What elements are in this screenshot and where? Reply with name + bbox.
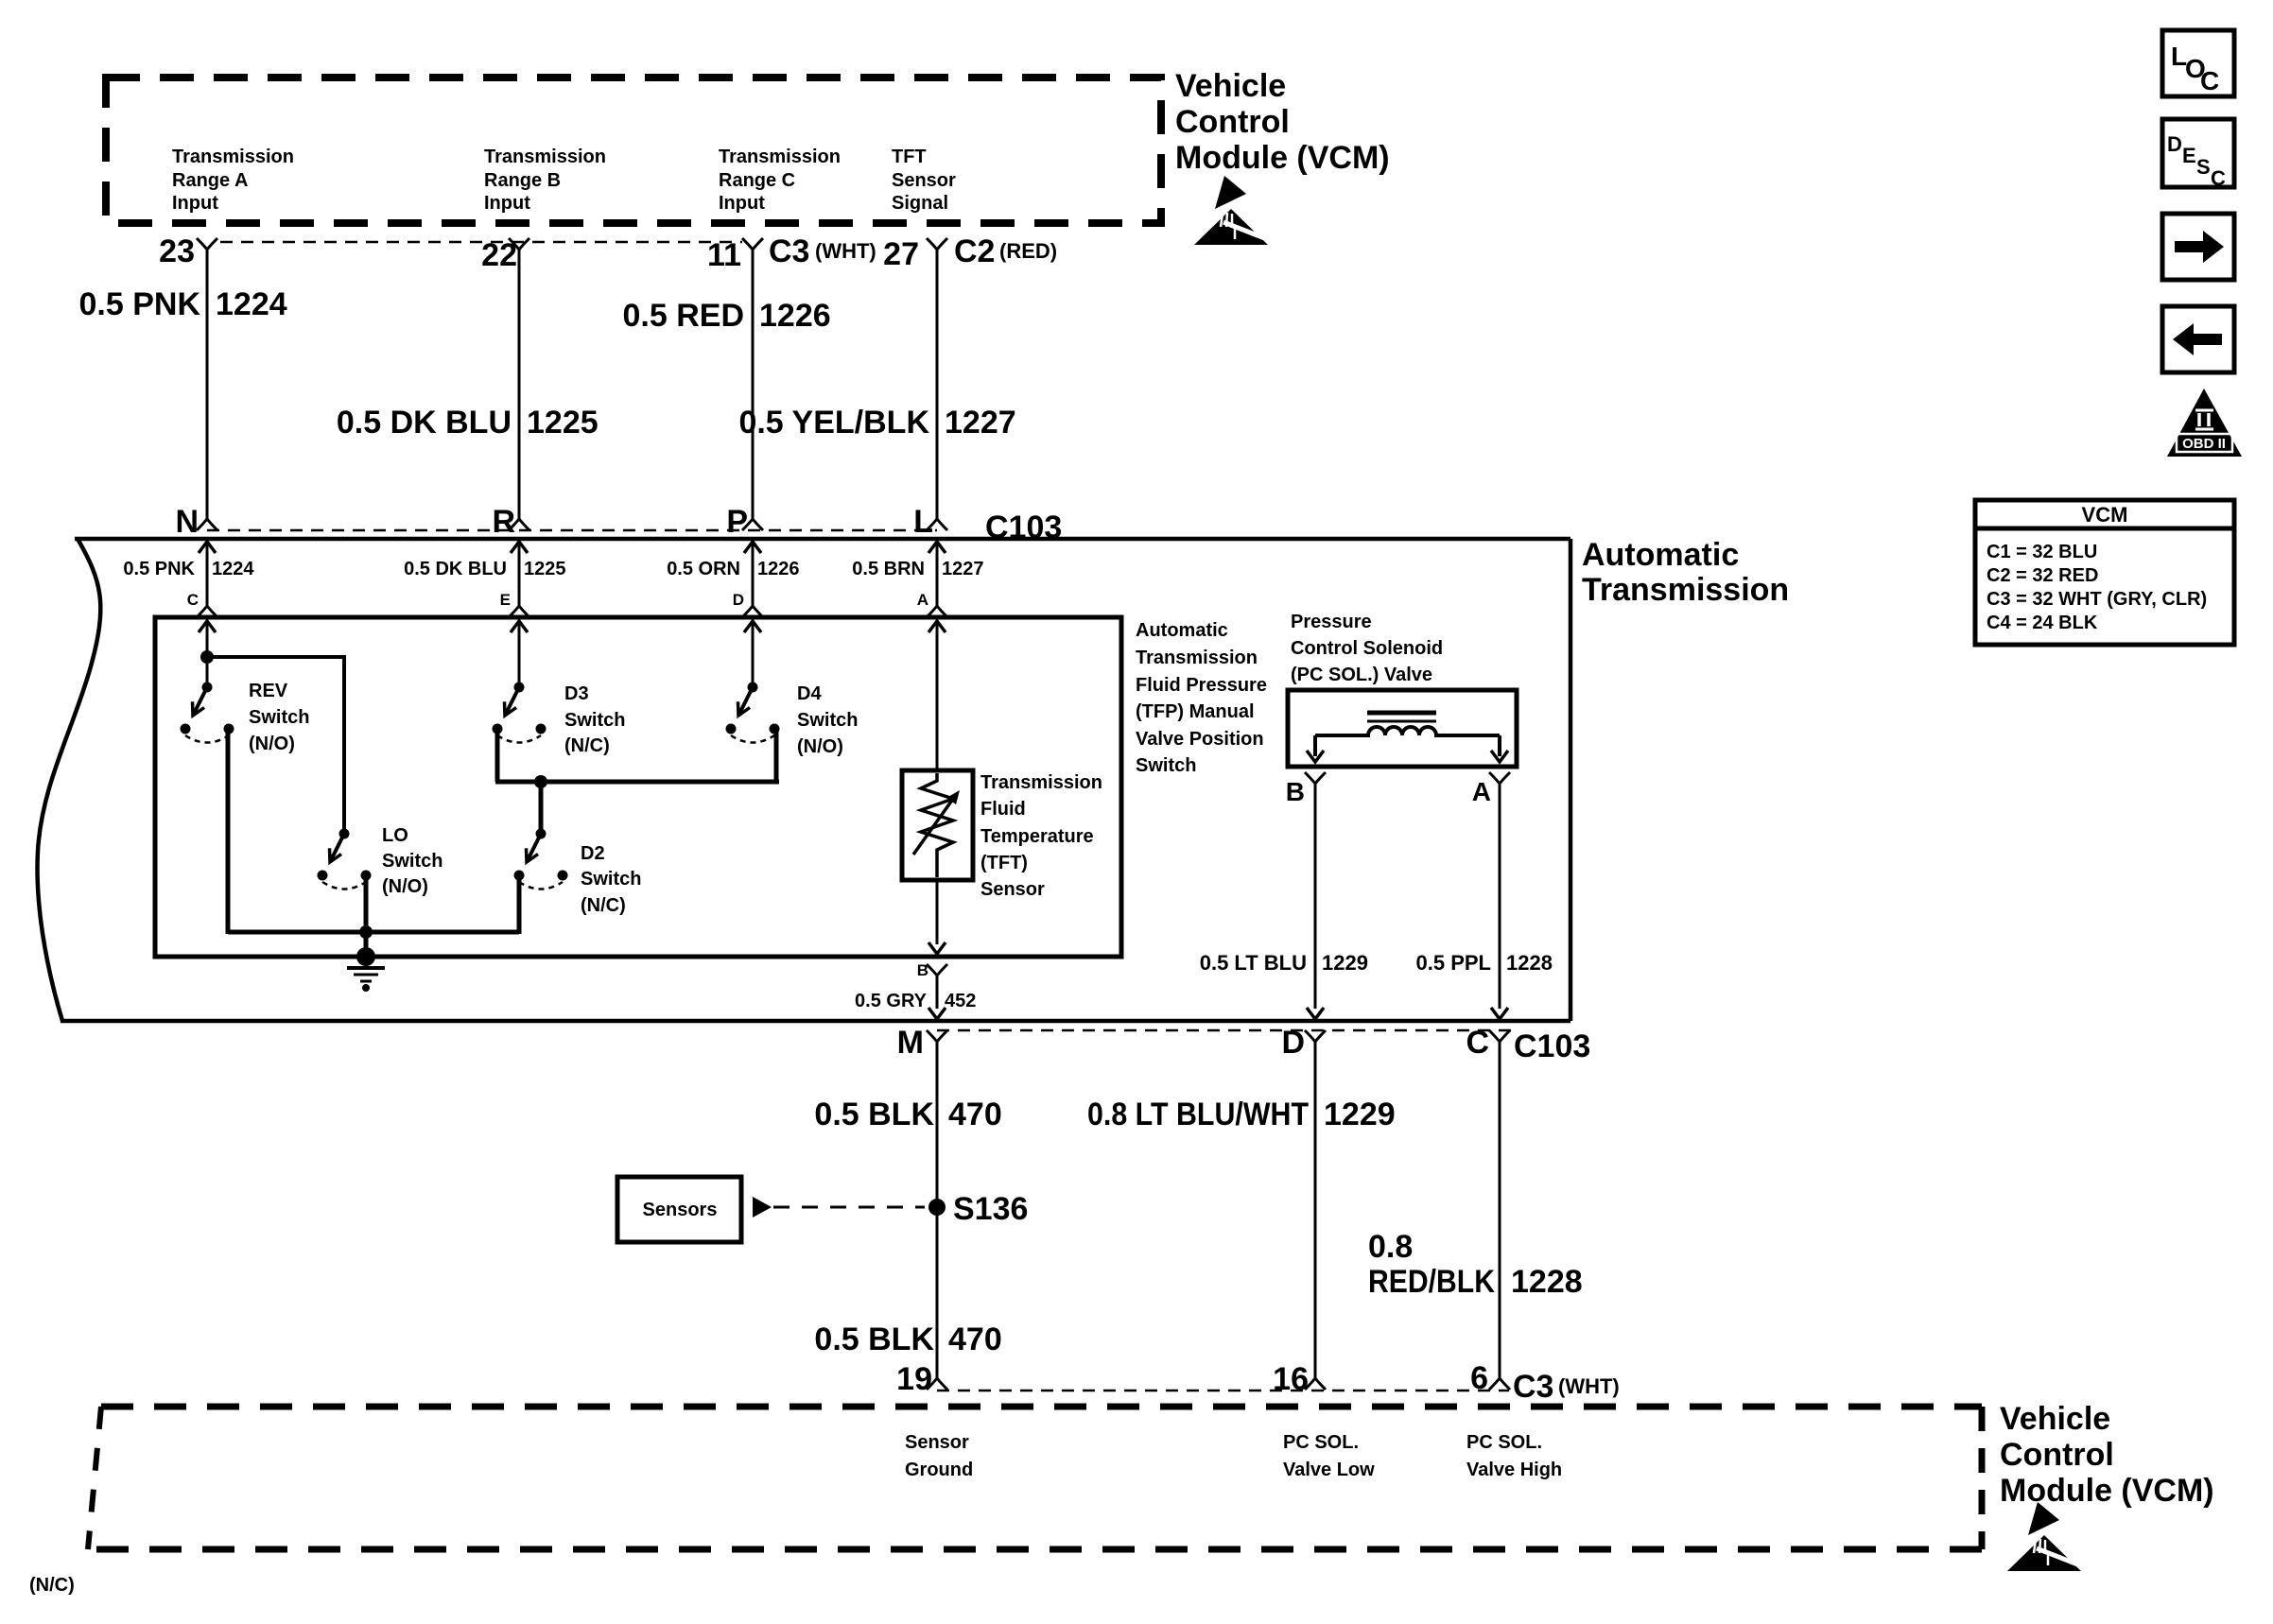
svg-text:A: A: [1472, 777, 1491, 806]
svg-text:0.5 DK BLU: 0.5 DK BLU: [404, 559, 507, 579]
legend LOC box: [2162, 30, 2234, 96]
wire D3 feed: [518, 621, 521, 687]
pin A of solenoid: [1489, 772, 1510, 784]
pin symbols into C103: [197, 519, 217, 530]
svg-text:Transmission: Transmission: [1136, 648, 1258, 668]
svg-text:Switch: Switch: [249, 707, 309, 728]
svg-text:0.5 RED: 0.5 RED: [623, 298, 745, 334]
wire 1224 upper: [206, 250, 209, 519]
svg-text:(TFT): (TFT): [980, 853, 1028, 873]
svg-text:0.5 YEL/BLK: 0.5 YEL/BLK: [738, 405, 929, 441]
connector C103 dashed line: [207, 529, 937, 532]
svg-text:Ground: Ground: [905, 1460, 973, 1480]
svg-text:(N/C): (N/C): [29, 1575, 75, 1596]
PC solenoid valve box: [1288, 690, 1517, 767]
connector C3 bottom dashed line: [937, 1390, 1509, 1392]
label Automatic Transmission Fluid Pressure (TFP) Manual Valve Position Switch: [1136, 620, 1267, 776]
Automatic Transmission box top line: [75, 537, 1570, 542]
svg-text:C1 = 32 BLU: C1 = 32 BLU: [1987, 542, 2097, 562]
label Pressure Control Solenoid (PC SOL.) Valve: [1291, 612, 1443, 685]
legend DESC box: [2162, 119, 2234, 190]
REV switch (N/O): [181, 682, 234, 743]
svg-text:Temperature: Temperature: [980, 826, 1094, 847]
svg-text:PC SOL.: PC SOL.: [1283, 1432, 1359, 1453]
svg-text:Transmission: Transmission: [719, 147, 841, 167]
svg-text:0.5 GRY: 0.5 GRY: [855, 991, 928, 1011]
svg-text:S: S: [2196, 155, 2211, 179]
wire REV feed: [206, 621, 209, 687]
svg-text:M: M: [897, 1025, 924, 1061]
svg-text:Transmission: Transmission: [980, 772, 1102, 793]
svg-text:1228: 1228: [1506, 951, 1553, 975]
svg-text:Vehicle: Vehicle: [2000, 1401, 2110, 1437]
svg-text:(PC SOL.) Valve: (PC SOL.) Valve: [1291, 665, 1432, 685]
pin symbol below TFP box: [927, 964, 947, 976]
solenoid core lines: [1367, 711, 1436, 716]
label LO Switch (N/O): [382, 825, 442, 897]
svg-text:Range B: Range B: [484, 170, 561, 191]
arrow to splice: [753, 1197, 772, 1218]
svg-text:D: D: [733, 591, 744, 609]
svg-text:Fluid Pressure: Fluid Pressure: [1136, 675, 1267, 696]
svg-text:27: 27: [883, 236, 919, 272]
bottom VCM module dashed box: [88, 1407, 1982, 1549]
svg-text:1227: 1227: [945, 405, 1016, 441]
Sensors reference box: [617, 1177, 741, 1242]
D3 switch (N/C): [493, 682, 547, 743]
wire REV output drop: [226, 729, 231, 934]
svg-text:Automatic: Automatic: [1136, 620, 1228, 641]
svg-text:(RED): (RED): [999, 239, 1057, 263]
svg-text:(N/O): (N/O): [249, 734, 295, 754]
svg-text:Sensor: Sensor: [980, 879, 1045, 900]
svg-text:TFT: TFT: [892, 147, 927, 167]
svg-text:Input: Input: [484, 193, 530, 214]
svg-text:PC SOL.: PC SOL.: [1466, 1432, 1542, 1453]
wire 1228 solenoid high: [1499, 784, 1501, 1009]
svg-text:D4: D4: [797, 683, 822, 704]
svg-text:23: 23: [159, 233, 195, 269]
wire 1226 upper: [752, 250, 755, 519]
svg-text:Sensors: Sensors: [643, 1200, 718, 1220]
ground bus wire: [228, 930, 519, 935]
svg-text:Control: Control: [2000, 1437, 2114, 1473]
svg-text:0.5 DK BLU: 0.5 DK BLU: [337, 405, 512, 441]
svg-text:B: B: [1286, 777, 1305, 806]
svg-text:P: P: [726, 504, 748, 540]
solenoid stub B: [1313, 735, 1317, 756]
wire D2 output drop: [517, 875, 522, 934]
svg-text:Valve Position: Valve Position: [1136, 729, 1264, 750]
svg-text:0.5 PPL: 0.5 PPL: [1416, 951, 1491, 975]
svg-text:1225: 1225: [527, 405, 599, 441]
svg-text:Pressure: Pressure: [1291, 612, 1372, 632]
svg-text:C2: C2: [954, 233, 995, 269]
wire D4 feed: [752, 621, 755, 687]
svg-text:470: 470: [948, 1322, 1002, 1357]
svg-text:RED/BLK: RED/BLK: [1368, 1264, 1495, 1300]
connector C103 bottom dashed line: [937, 1029, 1513, 1032]
svg-text:OBD II: OBD II: [2182, 436, 2226, 452]
D4 switch (N/O): [726, 682, 780, 743]
svg-text:0.5 PNK: 0.5 PNK: [79, 286, 201, 322]
svg-text:E: E: [500, 591, 511, 609]
LO switch (N/O): [318, 829, 372, 890]
svg-text:VCM: VCM: [2082, 503, 2128, 527]
Automatic Transmission box wavy left edge: [38, 539, 101, 1021]
svg-text:Vehicle: Vehicle: [1175, 68, 1286, 104]
solenoid stub A: [1498, 735, 1501, 756]
svg-text:C: C: [2200, 66, 2219, 95]
wire D4 output drop: [774, 729, 779, 782]
label Transmission Range C Input: [719, 147, 841, 214]
pin symbols into TFP box: [197, 606, 217, 617]
wire ground stem: [364, 932, 369, 955]
arrows below TFP top line: [199, 621, 216, 632]
svg-text:11: 11: [707, 237, 741, 273]
label D3 Switch (N/C): [564, 683, 625, 756]
svg-text:(N/O): (N/O): [382, 876, 428, 897]
VCM connector table: [1975, 500, 2234, 645]
svg-text:Valve High: Valve High: [1466, 1460, 1562, 1480]
top VCM module dashed box: [106, 78, 1161, 223]
legend forward arrow box: [2162, 214, 2234, 280]
TFT thermistor zigzag: [921, 773, 953, 877]
svg-text:S136: S136: [953, 1191, 1028, 1227]
svg-text:0.5 ORN: 0.5 ORN: [667, 559, 740, 579]
wire TFT to pin B: [936, 880, 939, 944]
svg-text:Module (VCM): Module (VCM): [2000, 1473, 2214, 1509]
svg-text:(WHT): (WHT): [815, 239, 876, 263]
wire 1226 inside: [752, 542, 755, 606]
svg-text:REV: REV: [249, 681, 288, 701]
wire branch to LO switch: [207, 657, 344, 834]
svg-text:C: C: [187, 591, 199, 609]
svg-text:Transmission: Transmission: [1582, 572, 1789, 608]
wire bus D3-D4: [495, 780, 779, 785]
svg-text:Valve Low: Valve Low: [1283, 1460, 1375, 1480]
svg-text:0.5 BLK: 0.5 BLK: [814, 1097, 934, 1132]
junction node ground: [359, 925, 373, 939]
wire 1225 inside: [518, 542, 521, 606]
label D4 Switch (N/O): [797, 683, 858, 757]
svg-text:Transmission: Transmission: [172, 147, 294, 167]
label TFT Sensor Signal: [892, 147, 956, 214]
splice S136: [928, 1199, 946, 1216]
svg-text:1224: 1224: [212, 559, 254, 579]
svg-text:1229: 1229: [1322, 951, 1368, 975]
svg-text:D2: D2: [581, 843, 605, 864]
svg-text:1224: 1224: [216, 286, 287, 322]
svg-text:0.5 PNK: 0.5 PNK: [123, 559, 195, 579]
connector C3/C2 thin dashed line: [220, 241, 742, 244]
svg-text:N: N: [175, 504, 199, 540]
svg-text:1226: 1226: [759, 298, 831, 334]
svg-text:1228: 1228: [1511, 1264, 1583, 1300]
svg-text:D3: D3: [564, 683, 589, 704]
svg-text:452: 452: [945, 991, 976, 1011]
label Transmission Range B Input: [484, 147, 606, 214]
wire D3 output drop: [495, 729, 500, 782]
wire 452: [936, 976, 939, 1009]
svg-text:L: L: [913, 504, 933, 540]
svg-text:C2 = 32 RED: C2 = 32 RED: [1987, 565, 2098, 586]
svg-text:(N/O): (N/O): [797, 736, 843, 757]
svg-text:(N/C): (N/C): [581, 895, 626, 916]
svg-text:Range C: Range C: [719, 170, 795, 191]
pin B of solenoid: [1305, 772, 1326, 784]
wire TFT feed: [936, 621, 939, 770]
svg-text:Switch: Switch: [797, 710, 858, 731]
svg-text:Switch: Switch: [564, 710, 625, 731]
svg-text:C: C: [2211, 166, 2226, 190]
svg-text:Automatic: Automatic: [1582, 537, 1739, 573]
wire 1229 lower: [1314, 1042, 1317, 1378]
svg-text:470: 470: [948, 1097, 1002, 1132]
solenoid coil: [1315, 727, 1500, 735]
wire 1228 lower: [1499, 1042, 1501, 1378]
legend back arrow box: [2162, 306, 2234, 372]
ground: [347, 947, 385, 992]
svg-text:1229: 1229: [1324, 1097, 1396, 1132]
ESD symbol top: [1194, 176, 1268, 245]
D2 switch (N/C): [514, 829, 568, 890]
svg-text:C3: C3: [769, 233, 809, 269]
TFT arrow: [913, 799, 953, 855]
svg-text:C4 = 24 BLK: C4 = 24 BLK: [1987, 613, 2098, 633]
svg-text:0.5 LT BLU: 0.5 LT BLU: [1200, 951, 1307, 975]
TFP manual valve position switch box: [155, 617, 1121, 957]
label Transmission Fluid Temperature (TFT) Sensor: [980, 772, 1102, 900]
wire 1225 upper: [518, 250, 521, 519]
svg-text:Transmission: Transmission: [484, 147, 606, 167]
wire 1227 inside: [936, 542, 939, 606]
svg-text:16: 16: [1273, 1361, 1309, 1397]
pin symbols top row: [197, 238, 217, 250]
svg-text:C103: C103: [1514, 1028, 1590, 1064]
arrow down at TFP bottom: [928, 942, 946, 954]
svg-text:(WHT): (WHT): [1558, 1374, 1620, 1398]
svg-text:D: D: [1281, 1025, 1305, 1061]
svg-text:Switch: Switch: [1136, 755, 1196, 776]
pin symbols below C103: [927, 1030, 947, 1042]
svg-text:1225: 1225: [524, 559, 566, 579]
svg-text:LO: LO: [382, 825, 408, 846]
svg-text:Signal: Signal: [892, 193, 948, 214]
svg-text:Sensor: Sensor: [905, 1432, 969, 1453]
junction node to LO branch: [200, 650, 214, 664]
svg-text:1226: 1226: [757, 559, 800, 579]
svg-text:R: R: [492, 504, 515, 540]
svg-text:(N/C): (N/C): [564, 735, 610, 756]
label D2 Switch (N/C): [581, 843, 641, 916]
wire 1227 upper: [936, 250, 939, 519]
svg-text:D: D: [2167, 132, 2182, 156]
label REV Switch (N/O): [249, 681, 309, 754]
svg-text:0.5 BRN: 0.5 BRN: [852, 559, 925, 579]
svg-text:1227: 1227: [942, 559, 984, 579]
wire LO output drop: [364, 875, 369, 932]
svg-text:Range A: Range A: [172, 170, 248, 191]
junction node D2 branch: [534, 775, 547, 788]
svg-text:Sensor: Sensor: [892, 170, 956, 191]
svg-text:Control: Control: [1175, 104, 1290, 140]
label Transmission Range A Input: [172, 147, 294, 214]
Automatic Transmission box bottom line: [61, 1019, 1570, 1024]
pins into bottom VCM: [927, 1378, 947, 1390]
label Vehicle Control Module (VCM) bottom: [2000, 1401, 2214, 1509]
wire 470 upper: [936, 1042, 939, 1378]
OBD II symbol: [2167, 389, 2242, 457]
TFT sensor box: [902, 770, 973, 880]
svg-text:C3: C3: [1513, 1369, 1553, 1405]
svg-text:C3 = 32 WHT (GRY, CLR): C3 = 32 WHT (GRY, CLR): [1987, 589, 2207, 610]
svg-text:Fluid: Fluid: [980, 799, 1026, 820]
svg-text:0.8 LT BLU/WHT: 0.8 LT BLU/WHT: [1087, 1097, 1309, 1132]
svg-text:Switch: Switch: [581, 869, 641, 890]
wire 1229 solenoid low: [1314, 784, 1317, 1009]
svg-text:0.5 BLK: 0.5 BLK: [814, 1322, 934, 1357]
svg-text:19: 19: [896, 1361, 932, 1397]
svg-text:Switch: Switch: [382, 851, 442, 872]
wire 1224 inside: [206, 542, 209, 606]
svg-text:(TFP) Manual: (TFP) Manual: [1136, 701, 1255, 722]
svg-text:A: A: [917, 591, 928, 609]
svg-text:Input: Input: [719, 193, 765, 214]
svg-text:Module (VCM): Module (VCM): [1175, 140, 1390, 176]
svg-text:Input: Input: [172, 193, 218, 214]
Automatic Transmission box right edge: [1569, 539, 1573, 1021]
ESD symbol bottom: [2007, 1502, 2081, 1571]
wire to D2 pivot: [539, 782, 544, 834]
svg-text:C: C: [1466, 1025, 1489, 1061]
arrows below AT top line: [199, 542, 216, 553]
svg-text:0.8: 0.8: [1368, 1229, 1413, 1265]
svg-text:Control Solenoid: Control Solenoid: [1291, 638, 1443, 659]
label Vehicle Control Module (VCM) top: [1175, 68, 1390, 176]
svg-text:E: E: [2182, 144, 2196, 167]
